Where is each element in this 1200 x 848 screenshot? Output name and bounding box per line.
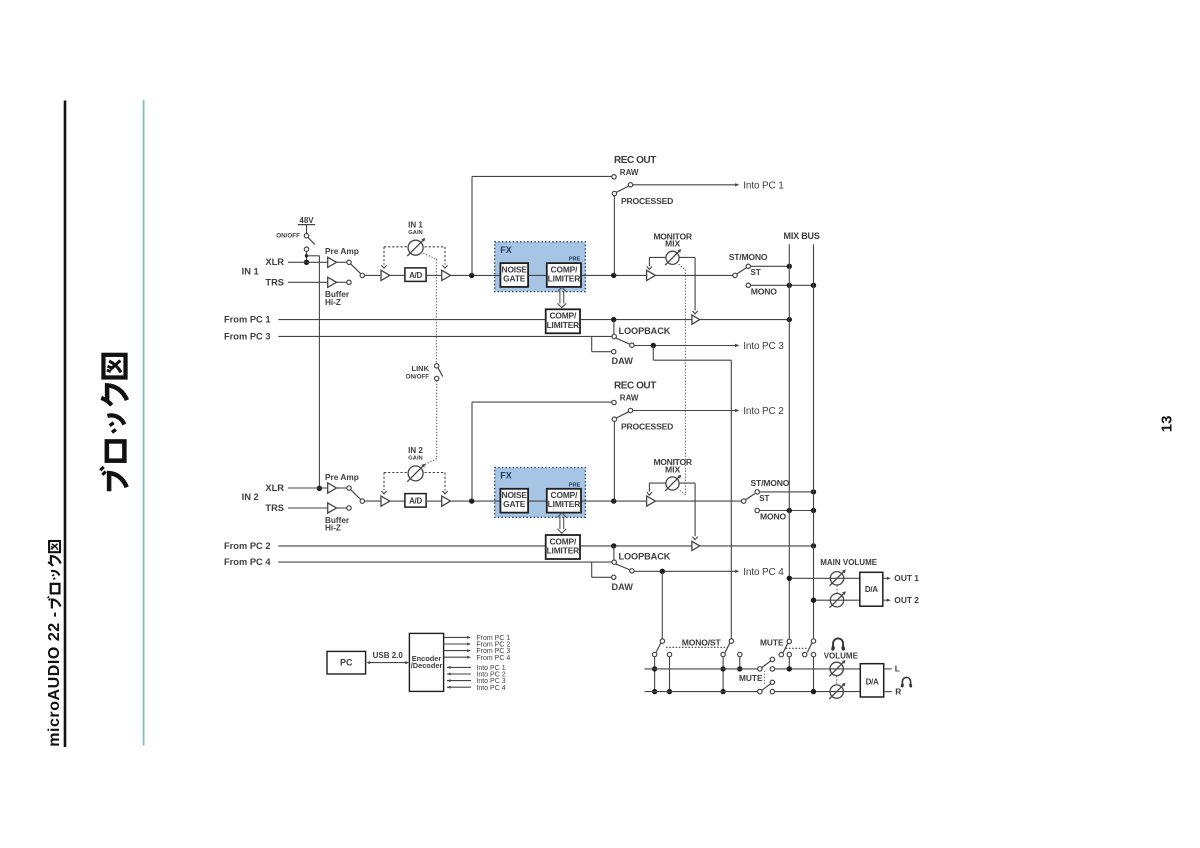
svg-text:VOLUME: VOLUME	[824, 651, 859, 660]
svg-text:From PC 2: From PC 2	[224, 541, 271, 551]
svg-text:USB 2.0: USB 2.0	[373, 651, 404, 660]
svg-text:LIMITER: LIMITER	[548, 274, 581, 284]
svg-text:FX: FX	[500, 245, 512, 255]
svg-text:A/D: A/D	[409, 497, 422, 506]
svg-text:From PC 4: From PC 4	[224, 557, 271, 567]
svg-text:GAIN: GAIN	[408, 230, 423, 236]
svg-text:ST/MONO: ST/MONO	[751, 478, 790, 488]
svg-text:DAW: DAW	[612, 582, 634, 592]
svg-text:PRE: PRE	[569, 482, 581, 488]
svg-text:Into PC 4: Into PC 4	[476, 685, 505, 692]
svg-text:LOOPBACK: LOOPBACK	[619, 552, 671, 562]
svg-text:microAUDIO 22 -: microAUDIO 22 -	[46, 611, 63, 746]
svg-text:ON/OFF: ON/OFF	[276, 233, 300, 240]
svg-text:TRS: TRS	[265, 277, 284, 287]
svg-text:13: 13	[1158, 416, 1175, 433]
svg-text:MUTE: MUTE	[760, 638, 784, 648]
svg-text:GAIN: GAIN	[408, 456, 423, 462]
svg-text:IN 2: IN 2	[408, 446, 423, 455]
svg-text:OUT 1: OUT 1	[894, 573, 919, 583]
svg-text:PROCESSED: PROCESSED	[621, 196, 673, 206]
svg-text:ST: ST	[751, 268, 761, 277]
svg-text:Pre Amp: Pre Amp	[325, 246, 359, 256]
svg-text:PC: PC	[340, 658, 353, 668]
svg-text:REC OUT: REC OUT	[614, 381, 656, 392]
svg-text:ST/MONO: ST/MONO	[729, 252, 768, 262]
svg-text:Into PC 1: Into PC 1	[743, 181, 784, 192]
svg-text:L: L	[895, 664, 900, 674]
svg-text:Hi-Z: Hi-Z	[325, 298, 341, 307]
svg-text:RAW: RAW	[620, 168, 639, 177]
svg-text:MIX: MIX	[665, 464, 681, 474]
svg-text:OUT 2: OUT 2	[894, 595, 919, 605]
svg-text:PRE: PRE	[569, 257, 581, 263]
svg-text:REC OUT: REC OUT	[614, 155, 656, 166]
svg-text:D/A: D/A	[866, 677, 879, 686]
svg-text:LOOPBACK: LOOPBACK	[619, 326, 671, 336]
svg-text:From PC 3: From PC 3	[224, 331, 271, 341]
svg-text:PROCESSED: PROCESSED	[621, 422, 673, 432]
svg-text:Pre Amp: Pre Amp	[325, 472, 359, 482]
svg-text:MONO: MONO	[751, 287, 777, 297]
svg-text:DAW: DAW	[612, 356, 634, 366]
svg-text:Into PC 3: Into PC 3	[743, 341, 784, 352]
svg-text:LIMITER: LIMITER	[547, 320, 580, 330]
svg-text:MIX: MIX	[665, 239, 681, 249]
svg-text:ON/OFF: ON/OFF	[406, 373, 430, 380]
svg-text:RAW: RAW	[620, 394, 639, 403]
svg-text:FX: FX	[500, 471, 512, 481]
svg-text:GATE: GATE	[503, 499, 526, 509]
svg-text:MAIN VOLUME: MAIN VOLUME	[820, 558, 878, 567]
svg-text:IN 1: IN 1	[408, 220, 423, 229]
svg-text:D/A: D/A	[865, 585, 878, 594]
svg-text:From PC 4: From PC 4	[476, 655, 510, 662]
svg-text:LIMITER: LIMITER	[547, 546, 580, 556]
svg-text:MIX BUS: MIX BUS	[784, 231, 820, 241]
svg-text:/Decoder: /Decoder	[411, 661, 443, 670]
svg-text:R: R	[895, 686, 901, 696]
svg-text:MONO/ST: MONO/ST	[682, 637, 722, 647]
svg-text:Into PC 2: Into PC 2	[743, 406, 784, 417]
svg-text:MONO: MONO	[760, 512, 786, 522]
svg-text:ST: ST	[759, 494, 769, 503]
svg-text:IN 1: IN 1	[242, 266, 259, 276]
svg-text:From PC 1: From PC 1	[224, 315, 271, 325]
svg-text:A/D: A/D	[409, 271, 422, 280]
svg-text:Into PC 4: Into PC 4	[743, 567, 784, 578]
svg-text:LINK: LINK	[412, 364, 430, 373]
svg-text:MUTE: MUTE	[739, 673, 763, 683]
svg-text:Hi-Z: Hi-Z	[325, 524, 341, 533]
svg-text:TRS: TRS	[265, 503, 284, 513]
svg-text:IN 2: IN 2	[242, 492, 259, 502]
svg-text:XLR: XLR	[265, 257, 284, 267]
svg-text:LIMITER: LIMITER	[548, 499, 581, 509]
svg-text:48V: 48V	[299, 216, 314, 225]
svg-text:XLR: XLR	[265, 483, 284, 493]
svg-text:GATE: GATE	[503, 274, 526, 284]
